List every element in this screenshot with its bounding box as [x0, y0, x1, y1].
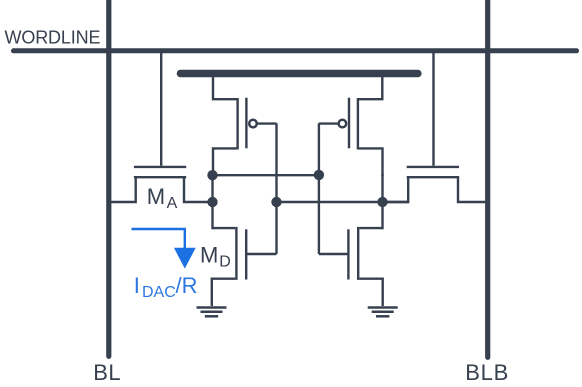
- pmos P2 gate wire to node Q line: [319, 122, 338, 124]
- transistor MA gate bar: [134, 166, 186, 168]
- wire right gates vertical: [318, 123, 320, 254]
- wire cross-couple top (Q to right gates): [213, 174, 319, 176]
- svg-text:D: D: [219, 254, 231, 271]
- svg-text:M: M: [147, 184, 165, 209]
- ground symbol left: [197, 308, 227, 317]
- svg-text:BLB: BLB: [465, 360, 509, 385]
- svg-text:M: M: [200, 243, 218, 268]
- svg-text:WORDLINE: WORDLINE: [5, 28, 101, 48]
- pmos P2 source lead from VDD: [359, 77, 382, 100]
- wire BL (bitline vertical): [106, 0, 111, 356]
- transistor MB source lead to BLB: [458, 176, 488, 202]
- pmos P1 drain lead: [213, 148, 237, 176]
- pmos P1 channel: [236, 98, 238, 150]
- svg-text:/R: /R: [176, 273, 198, 298]
- nmos MD gate bar: [245, 229, 247, 279]
- pmos P1 gate bubble: [249, 120, 257, 128]
- nmos N2 source lead to ground: [359, 279, 382, 306]
- junction dot right gates / cross-couple: [314, 170, 324, 180]
- junction dot Q / cross-couple: [207, 170, 217, 180]
- nmos MD gate lead: [246, 253, 276, 255]
- node Q vertical wire (left inverter output): [211, 174, 213, 229]
- junction dot QB / MB: [377, 197, 387, 207]
- transistor MB channel: [407, 176, 459, 178]
- nmos N2 channel: [357, 227, 359, 280]
- pmos P1 source lead from VDD: [213, 77, 237, 100]
- current arrow IDAC (blue): [132, 229, 185, 250]
- wire left gates vertical: [275, 123, 277, 254]
- transistor MA source lead to BL: [108, 176, 136, 202]
- nmos N2 drain lead from node QB: [359, 227, 382, 229]
- nmos N2 gate bar: [347, 229, 349, 279]
- transistor MB gate bar: [407, 166, 459, 168]
- wire wordline (horizontal): [14, 48, 577, 53]
- nmos N2 gate lead: [319, 253, 348, 255]
- svg-text:I: I: [134, 273, 140, 298]
- wire cross-couple bottom (QB to left gates): [277, 201, 409, 203]
- svg-text:A: A: [167, 195, 178, 212]
- nmos MD channel: [235, 227, 237, 280]
- pmos P1 gate bar: [245, 98, 247, 149]
- pmos P2 drain lead: [359, 148, 383, 176]
- pmos P2 gate bubble: [339, 120, 347, 128]
- transistor MA drain lead to node Q: [184, 176, 213, 202]
- svg-text:BL: BL: [93, 360, 121, 385]
- transistor MB gate wire from wordline: [432, 53, 434, 166]
- node QB vertical wire (right inverter output): [381, 174, 383, 229]
- transistor MB drain lead to node QB: [383, 176, 409, 202]
- junction dot left gates / QB wire: [271, 197, 281, 207]
- nmos MD drain lead from node Q: [213, 227, 236, 229]
- transistor MA channel: [134, 176, 186, 178]
- pmos P2 gate bar: [348, 98, 350, 149]
- junction dot Q / MA: [207, 197, 217, 207]
- ground symbol right: [368, 308, 398, 317]
- wire BLB (bitline-bar vertical): [485, 0, 490, 357]
- pmos P1 gate wire to node QB line: [258, 122, 277, 124]
- svg-text:DAC: DAC: [142, 284, 176, 301]
- transistor MA gate wire from wordline: [160, 53, 162, 166]
- current arrow head: [174, 248, 196, 269]
- nmos MD source lead to ground: [212, 279, 235, 306]
- power rail VDD bar: [180, 70, 418, 77]
- pmos P2 channel: [357, 98, 359, 150]
